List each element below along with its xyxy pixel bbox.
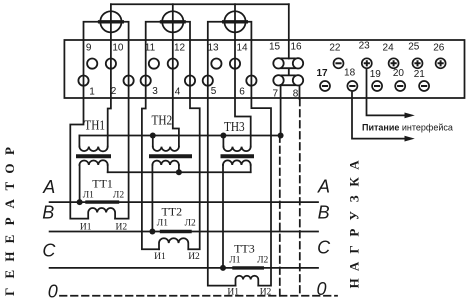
svg-text:20: 20 (393, 68, 405, 79)
svg-text:19: 19 (370, 69, 382, 80)
svg-text:6: 6 (239, 87, 245, 98)
terminal 5 (203, 76, 213, 86)
svg-text:Л1: Л1 (157, 219, 168, 229)
svg-text:B: B (318, 203, 330, 223)
terminal pair 15 16 (273, 58, 303, 75)
svg-text:23: 23 (359, 41, 371, 52)
fuse F1 (100, 4, 123, 40)
svg-text:А: А (347, 160, 362, 170)
wire terminal 4 to TT2 I2 (188, 40, 199, 249)
junction node TH3 tap (220, 133, 226, 139)
svg-text:10: 10 (112, 43, 124, 54)
svg-text:А: А (2, 198, 17, 208)
terminal 25 plus (413, 58, 423, 68)
svg-text:Р: Р (2, 147, 17, 155)
svg-text:13: 13 (207, 43, 219, 54)
arrow interface power minus (405, 136, 415, 142)
wire terminal 6 to TT3 I2 (251, 40, 271, 286)
svg-text:21: 21 (414, 69, 426, 80)
terminal 24 plus (389, 58, 399, 68)
svg-text:A: A (317, 177, 330, 197)
svg-text:Е: Е (2, 270, 17, 279)
current transformer TT3 secondary (236, 276, 259, 286)
wire fuse F1 left stub to terminal 1 (84, 22, 101, 40)
svg-text:25: 25 (408, 42, 420, 53)
svg-text:Л1: Л1 (229, 256, 240, 266)
svg-text:7: 7 (273, 89, 279, 100)
terminal 17 minus (320, 81, 330, 91)
terminal 12 (168, 59, 178, 69)
svg-text:0: 0 (48, 281, 58, 301)
terminal 3 (141, 76, 151, 86)
svg-text:24: 24 (383, 43, 395, 54)
current transformer TT2 secondary (159, 238, 188, 249)
svg-text:Е: Е (2, 235, 17, 244)
svg-text:ТТ3: ТТ3 (234, 243, 255, 256)
voltage transformer TH1 (78, 136, 109, 203)
svg-text:5: 5 (211, 86, 217, 97)
svg-text:26: 26 (433, 43, 445, 54)
terminal 18 minus (347, 81, 357, 91)
svg-text:18: 18 (344, 68, 356, 79)
terminal 4 (185, 76, 195, 86)
phase line A (50, 201, 318, 203)
wire fuse F2 right stub to terminal 4 (183, 22, 190, 40)
CT pin labels (80, 191, 272, 298)
svg-text:12: 12 (174, 43, 186, 54)
terminal circles group (78, 58, 303, 86)
junction node TH2 tap (150, 133, 156, 139)
neutral line 0 dashed (60, 295, 337, 297)
junction node phase C tap (220, 265, 226, 271)
svg-text:И2: И2 (115, 222, 127, 232)
terminal 19 minus (372, 81, 382, 91)
svg-text:C: C (317, 238, 331, 258)
svg-text:C: C (42, 241, 56, 261)
svg-text:З: З (347, 195, 362, 202)
svg-text:У: У (347, 210, 362, 220)
fuse F2 (162, 4, 185, 40)
svg-text:3: 3 (152, 86, 158, 97)
svg-text:И1: И1 (227, 288, 239, 298)
svg-text:Г: Г (347, 245, 362, 253)
svg-text:Питание интерфейса: Питание интерфейса (362, 123, 453, 133)
wire dashed neutral link from terminal 8 (299, 99, 301, 296)
svg-text:Г: Г (2, 288, 17, 296)
svg-text:Л2: Л2 (257, 256, 268, 266)
wire terminal 8 stub (299, 86, 301, 100)
wire terminal 3 to TT2 I1 (142, 40, 159, 249)
wire terminal 1 to TT1 I1 (70, 40, 88, 219)
wire terminal 5 to TT3 I1 (208, 40, 236, 286)
svg-text:А: А (347, 261, 362, 271)
svg-text:Т: Т (2, 182, 17, 191)
label GENERATOR (2, 147, 17, 296)
svg-text:Л1: Л1 (83, 191, 94, 201)
wire fuse F3 right stub to terminal 6 (246, 22, 252, 40)
svg-text:14: 14 (236, 43, 248, 54)
svg-text:И1: И1 (154, 252, 166, 262)
svg-text:ТН2: ТН2 (152, 113, 173, 128)
junction node phase B tap (149, 229, 155, 235)
svg-text:Н: Н (2, 252, 17, 262)
current transformer TT2 primary bar (162, 230, 191, 233)
junction node TH2 common (176, 169, 182, 175)
labels: terminal numbers top row (86, 41, 445, 100)
terminal 1 (78, 76, 88, 86)
wire fuse F1 right stub to terminal 2 (122, 22, 129, 40)
terminal 22 minus (334, 58, 344, 68)
svg-text:Р: Р (2, 217, 17, 225)
svg-text:4: 4 (175, 87, 181, 98)
wire terminal 18 to interface power minus arrow (352, 93, 406, 139)
svg-text:22: 22 (329, 43, 341, 54)
terminal 11 (149, 59, 159, 69)
terminal 6 (246, 76, 256, 86)
meter terminal box (64, 40, 464, 98)
terminal 20 minus (395, 81, 405, 91)
svg-text:11: 11 (145, 43, 156, 54)
junction node terminal 7 tap (278, 133, 284, 139)
terminal 21 minus (419, 81, 429, 91)
svg-text:И1: И1 (80, 222, 92, 232)
wire bus drop to terminal 16 (288, 4, 290, 58)
terminal 2 (124, 76, 134, 86)
phase line B (50, 231, 318, 233)
phase labels left (42, 177, 331, 302)
svg-text:17: 17 (316, 68, 328, 79)
svg-text:ТТ2: ТТ2 (162, 205, 183, 218)
current transformer TT1 secondary (88, 208, 115, 219)
wire terminal 12 to TH2 secondary right (173, 40, 179, 147)
svg-text:B: B (42, 203, 54, 223)
fuse F3 (224, 4, 247, 40)
svg-text:Р: Р (347, 229, 362, 237)
svg-text:И2: И2 (188, 252, 200, 262)
svg-text:ТТ1: ТТ1 (92, 177, 113, 190)
svg-text:15: 15 (269, 42, 281, 53)
wire voltage common bus (79, 135, 280, 137)
terminal 9 (87, 59, 97, 69)
wire fuse F2 left stub to terminal 3 (146, 22, 163, 40)
svg-text:1: 1 (89, 87, 95, 98)
terminal 13 (211, 59, 221, 69)
wire terminal 23 to interface power plus arrow (367, 70, 406, 116)
current transformer TT3 primary bar (234, 266, 262, 269)
wire terminal 2 to TT1 I2 (115, 40, 129, 219)
terminal 26 plus (436, 58, 446, 68)
terminal 10 (106, 59, 116, 69)
wire fuse F3 left stub to terminal 5 (208, 22, 225, 40)
wire TH primary common bus (108, 171, 251, 173)
svg-text:К: К (347, 177, 362, 187)
svg-text:8: 8 (293, 89, 299, 100)
svg-text:2: 2 (111, 86, 117, 97)
phase line C (50, 267, 318, 269)
interface terminals 17-26 (320, 58, 446, 91)
label NAGRUZKA (347, 160, 362, 289)
wire dashed neutral link from node 7 (279, 136, 281, 296)
svg-text:9: 9 (86, 43, 92, 54)
wire terminal 10 to TH1 secondary right (108, 40, 111, 147)
wire terminal 7 to voltage common node (280, 85, 282, 136)
svg-text:A: A (42, 177, 55, 197)
svg-text:0: 0 (316, 279, 326, 299)
transformer labels (84, 113, 255, 255)
voltage transformer TH2 (151, 136, 190, 232)
voltage transformer TH3 (223, 136, 253, 268)
svg-text:Л2: Л2 (185, 219, 196, 229)
terminal 23 plus (362, 58, 372, 68)
current transformer TT1 primary bar (87, 200, 118, 203)
svg-text:И2: И2 (260, 288, 272, 298)
arrow interface power plus (405, 113, 415, 119)
junction node phase A tap (77, 199, 83, 205)
svg-text:Н: Н (347, 278, 362, 288)
svg-text:ТН3: ТН3 (224, 120, 245, 135)
wire top bus (111, 3, 289, 5)
svg-text:ТН1: ТН1 (84, 119, 105, 134)
terminal pair 7 8 (273, 75, 303, 85)
svg-text:16: 16 (290, 42, 302, 53)
wire terminal 14 to TH3 secondary right (235, 40, 251, 147)
svg-text:Л2: Л2 (113, 191, 124, 201)
svg-text:О: О (2, 164, 17, 174)
terminal 14 (230, 59, 240, 69)
